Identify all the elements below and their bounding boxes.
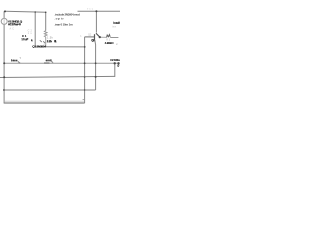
svg-text:2.2k: 2.2k: [47, 40, 53, 44]
svg-text:4.99kO: 4.99kO: [105, 41, 115, 45]
svg-text:emit: emit: [46, 58, 52, 62]
svg-text:vcc: vcc: [87, 8, 94, 11]
svg-text:ine: ine: [112, 25, 117, 28]
svg-text:RL: RL: [54, 39, 57, 43]
svg-text:10uF: 10uF: [21, 37, 28, 41]
svg-text:1u: 1u: [28, 32, 33, 35]
svg-text:AC: AC: [10, 27, 15, 30]
svg-text:.op tr: .op tr: [55, 17, 65, 21]
svg-text:.tran 0 10m 1m: .tran 0 10m 1m: [55, 23, 74, 27]
svg-text:base: base: [11, 58, 18, 62]
svg-text:loadl: loadl: [113, 21, 120, 25]
svg-text:AC 1 Rser=5: AC 1 Rser=5: [8, 22, 21, 26]
svg-text:Q2: Q2: [91, 39, 95, 43]
svg-text:C2 100n: C2 100n: [110, 58, 120, 62]
